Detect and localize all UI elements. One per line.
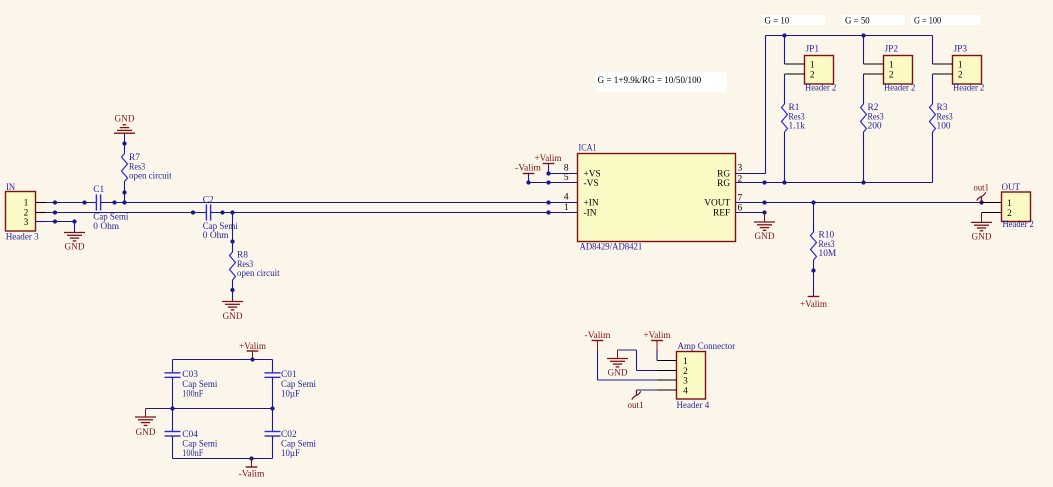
svg-text:Cap Semi: Cap Semi [182,380,217,390]
svg-text:1.1k: 1.1k [789,122,806,132]
svg-text:10µF: 10µF [281,449,300,459]
junction [782,33,786,37]
wire right column upper [272,360,274,373]
ground GND at IN [64,232,85,234]
svg-text:3: 3 [683,376,688,386]
JP2 pin 1 stub [864,63,884,65]
svg-text:-Valim: -Valim [585,331,612,341]
resistor R2 200 [861,104,867,132]
ground GND cap bank [145,409,147,418]
wire top bus to JP2 pin 1 [863,36,865,65]
junction [270,406,274,410]
svg-text:C02: C02 [281,430,297,440]
svg-text:1: 1 [958,61,963,71]
connector OUT Header 2 [1002,192,1031,222]
amp pin 2 stub [657,370,677,372]
svg-text:8: 8 [564,163,569,173]
wire [172,437,174,459]
wire JP2 pin 2 to R2 [863,74,865,104]
junction R7 bottom pin [122,190,126,194]
wire middle to ground [146,408,273,410]
svg-text:100nF: 100nF [182,389,203,399]
svg-text:G = 100: G = 100 [914,17,941,27]
svg-text:1: 1 [564,203,569,213]
junction R8 node [230,210,234,214]
wire [172,378,174,409]
svg-text:4: 4 [683,386,688,396]
svg-text:C03: C03 [182,370,198,380]
gain note G = 50 [841,15,905,25]
svg-text:-VS: -VS [584,179,599,189]
svg-text:open circuit: open circuit [237,269,280,279]
svg-text:VOUT: VOUT [704,199,730,209]
junction [782,180,786,184]
svg-text:Header 2: Header 2 [1003,220,1035,230]
junction [191,210,195,214]
svg-text:G = 50: G = 50 [845,17,870,27]
OUT pin 1 stub [982,202,1002,204]
wire +Valim to pin 8 [548,164,550,174]
svg-text:1: 1 [24,199,29,209]
junction R8 top pin [230,239,234,243]
svg-text:C2: C2 [203,195,214,205]
junction [861,33,865,37]
note gain formula [596,73,727,93]
ground GND at OUT [981,213,983,223]
wire -Valim to amp pin 3 [597,351,599,381]
power +Valim below R10 [808,296,820,298]
wire JP1 pin 2 to R1 [784,74,786,104]
amp pin 1 stub [657,360,677,362]
wire VOUT down to R10 [813,203,815,233]
wire cap bank top [173,359,273,361]
svg-text:4: 4 [564,192,569,202]
svg-text:GND: GND [972,232,992,242]
power -Valim cap bank [251,459,253,468]
svg-text:REF: REF [713,209,730,219]
svg-text:2: 2 [683,367,688,377]
capacitor C02 10uF [265,431,281,433]
capacitor C04 100nF [165,431,181,433]
svg-text:1: 1 [683,357,688,367]
wire JP3 pin 2 to R3 [932,74,934,104]
junction [861,180,865,184]
svg-text:JP1: JP1 [806,45,820,55]
capacitor C03 100nF [165,372,181,374]
connector IN Header 3 [6,192,36,232]
junction [546,171,550,175]
svg-text:C04: C04 [182,430,198,440]
svg-text:Cap Semi: Cap Semi [281,380,316,390]
wire IN3 to ground [46,221,75,223]
junction R10 bottom pin [811,268,815,272]
junction [249,456,253,460]
junction [170,406,174,410]
connector Amp Connector Header 4 [677,352,706,400]
wire IN2 to C2 [46,212,207,214]
junction [546,210,550,214]
junction [220,210,224,214]
junction [546,180,550,184]
JP3 pin 2 stub [933,73,953,75]
wire out1 to amp pin 4 [637,389,658,391]
svg-text:100: 100 [937,122,951,132]
net label out1 amp [636,390,638,396]
svg-text:Cap Semi: Cap Semi [182,439,217,449]
op-amp ICA1 AD8429/AD8421 body [578,154,736,242]
wire right column lower [272,409,274,432]
svg-text:out1: out1 [628,401,644,411]
ground GND above R7 [124,133,126,143]
wire [124,182,126,203]
wire C2 to -IN [211,212,578,214]
resistor R3 100 [930,104,936,132]
svg-text:200: 200 [868,122,882,132]
svg-text:RG: RG [717,179,730,189]
junction [53,200,57,204]
wire R10 to +Valim [813,260,815,297]
junction [762,210,766,214]
junction out1 node [979,200,983,204]
svg-text:+Valim: +Valim [644,331,672,341]
svg-text:+IN: +IN [584,199,599,209]
svg-text:5: 5 [564,173,569,183]
junction [112,200,116,204]
svg-text:1: 1 [889,61,894,71]
wire top bus to JP3 pin 1 [932,36,934,65]
svg-text:-Valim: -Valim [239,470,266,480]
svg-text:Header 4: Header 4 [677,401,710,411]
svg-text:ICA1: ICA1 [579,144,597,154]
svg-text:0 Ohm: 0 Ohm [93,222,120,232]
wire VOUT to OUT header [736,202,982,204]
JP2 pin 2 stub [864,73,884,75]
svg-text:+VS: +VS [584,170,601,180]
ground GND at REF [764,213,766,223]
resistor R7 open circuit [122,154,128,182]
wire RG pin 2 net [736,182,933,184]
svg-text:100nF: 100nF [182,449,203,459]
JP1 pin 1 stub [785,63,805,65]
wire top bus [766,35,933,37]
amp pin 4 stub [657,389,677,391]
gain note G = 100 [911,15,981,25]
svg-text:Header 2: Header 2 [884,84,916,94]
junction R7 node [122,200,126,204]
svg-text:Header 2: Header 2 [953,84,985,94]
svg-text:2: 2 [958,71,963,81]
wire row B down to R8 [232,213,234,253]
svg-text:C1: C1 [93,185,104,195]
junction [250,357,254,361]
svg-text:GND: GND [608,369,628,379]
svg-text:Header 2: Header 2 [805,84,837,94]
svg-text:2: 2 [810,71,815,81]
svg-text:1: 1 [810,61,815,71]
OUT pin 2 stub [982,212,1002,214]
svg-text:out1: out1 [974,184,990,194]
wire down to ground [74,222,76,233]
amp pin 3 stub [657,379,677,381]
svg-text:GND: GND [755,232,775,242]
junction [762,200,766,204]
svg-text:1: 1 [1007,199,1012,209]
wire +Valim to amp pin 1 [656,351,658,361]
wire [272,378,274,409]
wire [272,437,274,459]
wire RG pin 3 net [736,173,766,175]
svg-text:Cap Semi: Cap Semi [281,439,316,449]
junction [546,200,550,204]
svg-text:G = 10: G = 10 [765,17,790,27]
svg-text:-IN: -IN [584,209,597,219]
junction [526,180,530,184]
junction R10 node [811,200,815,204]
capacitor C1 [95,194,97,210]
svg-text:JP2: JP2 [885,45,899,55]
svg-text:Amp Connector: Amp Connector [678,342,736,352]
junction [82,200,86,204]
wire left column lower [172,409,174,432]
wire REF pin 6 [736,212,765,214]
IN pin 2 stub [36,212,46,214]
svg-text:C01: C01 [281,370,297,380]
wire R3 to RG2 net [932,132,934,183]
svg-text:JP3: JP3 [954,45,968,55]
svg-text:2: 2 [889,71,894,81]
svg-text:GND: GND [136,428,156,438]
svg-text:Header 3: Header 3 [6,232,39,242]
svg-text:GND: GND [65,243,85,253]
svg-text:3: 3 [24,218,29,228]
wire cap bank bottom [173,458,273,460]
svg-text:+Valim: +Valim [535,154,563,164]
JP3 pin 1 stub [933,63,953,65]
capacitor C2 [205,204,207,220]
wire R2 to RG2 net [863,132,865,183]
svg-text:GND: GND [223,312,243,322]
svg-text:0 Ohm: 0 Ohm [203,231,230,241]
wire -Valim to pin 5 [528,174,530,183]
net label out1 [981,197,983,203]
junction R7 top pin [122,141,126,145]
junction [53,219,57,223]
junction [762,180,766,184]
junction R8 bottom pin [230,288,234,292]
resistor R8 open circuit [230,252,236,280]
svg-text:10M: 10M [819,249,837,259]
svg-text:open circuit: open circuit [129,171,172,181]
resistor R1 1.1k [782,104,788,132]
svg-text:10µF: 10µF [281,389,300,399]
wire R1 to RG2 net [784,132,786,183]
ground GND below R8 [222,301,243,303]
svg-text:-Valim: -Valim [515,164,542,174]
gain note G = 10 [761,15,825,25]
wire C1 to +IN [101,202,578,204]
junction [72,219,76,223]
JP1 pin 2 stub [785,73,805,75]
svg-text:G = 1+9.9k/RG = 10/50/100: G = 1+9.9k/RG = 10/50/100 [598,76,702,86]
capacitor C01 10uF [265,372,281,374]
svg-text:2: 2 [1007,209,1012,219]
wire top bus to JP1 pin 1 [784,36,786,65]
svg-text:RG: RG [717,170,730,180]
wire R8 to ground [232,280,234,302]
ground GND amp [617,350,619,359]
svg-text:3: 3 [738,163,743,173]
wire IN1 to C1 [46,202,97,204]
svg-text:AD8429/AD8421: AD8429/AD8421 [580,243,643,253]
wire [124,144,126,154]
wire left column upper [172,360,174,373]
wire ground to amp pin 2 [618,349,637,351]
resistor R10 10M [811,232,817,260]
IN pin 1 stub [36,202,46,204]
svg-text:+Valim: +Valim [800,300,828,310]
svg-text:GND: GND [115,115,135,125]
junction [53,210,57,214]
IN pin 3 stub [36,221,46,223]
